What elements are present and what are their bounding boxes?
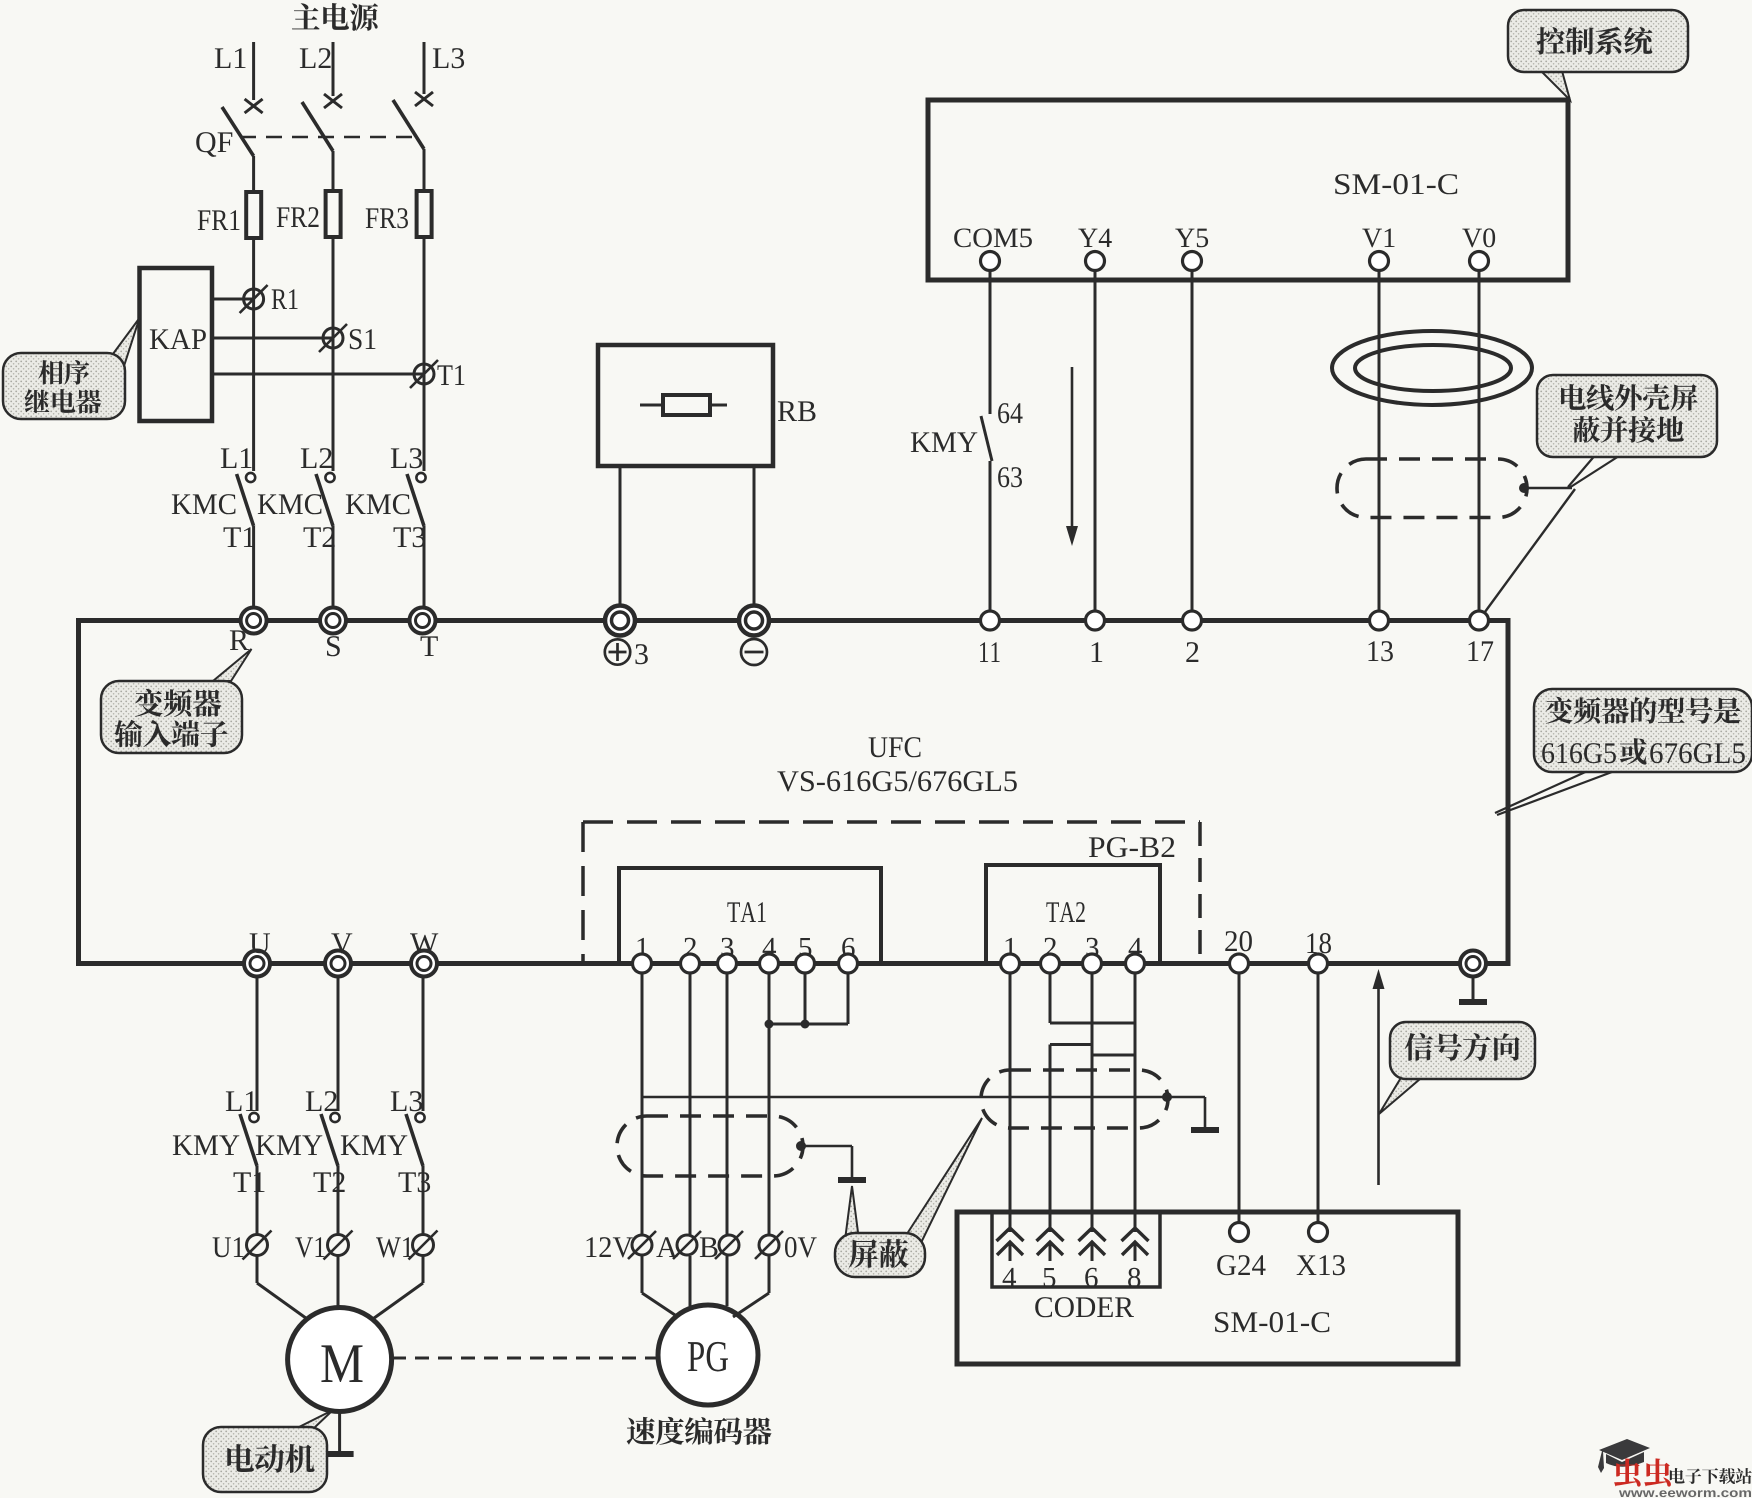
wire dot to callout (1524, 487, 1572, 489)
terminal +3 (605, 606, 635, 636)
wire COM5 to KMY (989, 271, 992, 415)
contactor KMC2 (301, 448, 317, 468)
contactor KMY3 (391, 1091, 407, 1111)
wire A to PG (689, 1256, 692, 1306)
label CODER (1035, 1297, 1052, 1317)
wire jog c (1092, 1054, 1135, 1057)
wire L2 drop (332, 42, 335, 96)
wire 20 to G24 (1238, 973, 1241, 1223)
wire TA1-2 down (689, 973, 692, 1236)
terminal 11 (981, 611, 1000, 630)
node L1 (215, 48, 231, 68)
relay KAP box (140, 268, 213, 421)
wire QF to FR2 (332, 151, 335, 191)
shield oval TA1 dashed (617, 1116, 803, 1176)
long shield wire (643, 1096, 1167, 1099)
wire Y4 to terminal 1 (1094, 271, 1097, 612)
label PG-B2 (1089, 837, 1104, 857)
resistor unit RB box (598, 345, 773, 466)
watermark 电子下载站 (1670, 1468, 1685, 1484)
wire Y5 to terminal 2 (1191, 271, 1194, 612)
wire jog a (1050, 1022, 1135, 1025)
coder arrow pin 4 (997, 1228, 1024, 1241)
wire W1 to motor (422, 1256, 425, 1283)
wire V down (337, 977, 340, 1112)
terminal 1 (1086, 611, 1105, 630)
terminal V1 (1362, 229, 1382, 248)
wire QF to FR1 (252, 156, 255, 192)
terminal V1 (295, 1237, 313, 1257)
terminal 0V (759, 1235, 779, 1255)
wire 0V to PG (768, 1256, 771, 1293)
breaker QF linkage dashed (240, 136, 414, 139)
watermark url (1619, 1490, 1631, 1497)
pin TA1-1 (638, 938, 648, 957)
terminal Y5 (1175, 229, 1194, 247)
net label 主电源 (main power) (292, 3, 320, 29)
control system SM-01-C box (928, 100, 1568, 280)
wire RB to minus (753, 466, 756, 608)
wire KMC3 to bus (423, 526, 426, 608)
connector TA2 box (986, 865, 1160, 964)
contactor KMY2 (306, 1091, 322, 1111)
thermal relay FR1 (246, 192, 261, 238)
wire KAP to T1 (212, 373, 424, 376)
callout 变频器输入端子 (inverter input terminals) (213, 649, 252, 681)
wire V0 to terminal 17 (1478, 271, 1481, 612)
wire V1 to motor (337, 1256, 340, 1308)
shield oval TA2 dashed (981, 1070, 1168, 1128)
wire KMY3 to U1 terminal (422, 1166, 425, 1236)
pin TA1-6 (842, 938, 854, 957)
thermal relay FR3 (417, 191, 432, 237)
wire V1 to terminal 13 (1378, 271, 1381, 612)
shaft coupling dashed (392, 1357, 657, 1360)
terminal W (411, 951, 437, 977)
wire KMC2 to bus (332, 526, 335, 608)
PG-B2 dashed box (583, 820, 1200, 824)
signal arrow up (1377, 985, 1380, 1185)
wire KMC1 to bus (252, 526, 255, 608)
pin TA2-4 (1129, 938, 1142, 957)
wire shield TA2 to ground (1167, 1096, 1205, 1099)
cable shield oval top right dashed (1337, 459, 1527, 518)
wire FR3 down to KMC3 (423, 237, 426, 471)
shield junction dot (1519, 483, 1529, 493)
pin TA2-3 (1086, 938, 1098, 957)
terminal V (325, 951, 351, 977)
terminal R (241, 608, 267, 634)
wire TA1-6 stub (847, 973, 850, 1024)
node L2 (300, 48, 316, 68)
twisted pair rings (1332, 331, 1532, 405)
wire 18 to X13 (1317, 973, 1320, 1223)
terminal A (656, 1237, 677, 1257)
wire TA2-3 down (1091, 973, 1094, 1232)
callout 变频器的型号是616G5或676GL5 (inverter model) (1495, 769, 1592, 813)
terminal T1 (414, 364, 434, 384)
coder arrow pin 8 (1122, 1228, 1149, 1241)
watermark logo cap (1598, 1439, 1650, 1473)
wire TA1-5 stub (804, 973, 807, 1024)
wire TA2-1 down (1009, 973, 1012, 1232)
shield dot TA2 (1162, 1092, 1172, 1102)
label VS-616G5/676GL5 (777, 771, 798, 791)
relay KAP label (150, 329, 170, 349)
pin TA2-2 (1044, 938, 1056, 957)
wire L1 drop (252, 42, 255, 100)
terminal V0 (1462, 229, 1482, 248)
callout 相序继电器 (phase sequence relay) (110, 318, 140, 366)
junction dot 5 (801, 1020, 810, 1029)
pin TA2-1 (1006, 938, 1016, 957)
callout 控制系统 (control system) (1540, 70, 1570, 100)
wire 12V to PG (641, 1256, 644, 1293)
wire FR2 down to KMC2 (332, 237, 335, 471)
contactor KMY1 (226, 1091, 242, 1111)
wire W down (422, 977, 425, 1112)
wire jog b (1050, 1043, 1092, 1046)
callout 电动机 (motor) (295, 1410, 333, 1429)
contact KMY 64-63 (981, 416, 992, 461)
wire U down (256, 977, 259, 1112)
terminal COM5 (954, 228, 970, 247)
wire TA1-4 down (768, 973, 771, 1236)
wire RB to +3 (619, 466, 622, 608)
terminal 17 (1470, 611, 1489, 630)
terminal R1 (244, 289, 264, 309)
wire B to PG (726, 1256, 729, 1306)
label UFC (869, 737, 888, 757)
wire TA1-3 down (726, 973, 729, 1236)
terminal U (244, 951, 270, 977)
contactor KMC3 (391, 448, 407, 468)
connector CODER box (992, 1212, 1160, 1287)
wire KMY1 to U1 terminal (256, 1166, 259, 1236)
watermark 虫虫 (1614, 1458, 1641, 1486)
terminal minus (739, 606, 769, 636)
contactor KMC1 (221, 448, 237, 468)
wire U1 to motor (256, 1256, 259, 1283)
wire FR1 down to KMC1 (252, 238, 255, 471)
breaker QF contact x marks (245, 99, 263, 113)
terminal T (410, 608, 436, 634)
breaker QF blades (222, 107, 254, 156)
pin TA1-5 (800, 938, 812, 957)
motor M (288, 1308, 392, 1412)
wire KMY to terminal 11 (989, 461, 992, 611)
signal direction arrow down (1071, 367, 1074, 530)
terminal 2 (1183, 611, 1202, 630)
shield dot TA1 (796, 1141, 806, 1151)
pin TA1-4 (763, 938, 776, 957)
label SM-01-C (1335, 174, 1349, 194)
terminal U1 (213, 1237, 231, 1257)
breaker QF label (196, 132, 216, 157)
terminal 18 (1307, 933, 1317, 953)
wire shield TA1 to ground (801, 1145, 852, 1148)
wire QF to FR3 (423, 149, 426, 191)
terminal W1 (376, 1237, 401, 1257)
junction dot 4 (765, 1020, 774, 1029)
terminal Y4 (1078, 229, 1097, 247)
callout 信号方向 (signal direction) (1379, 1076, 1420, 1114)
label RB (778, 401, 797, 421)
pin TA1-2 (684, 938, 696, 957)
wire L3 drop (423, 42, 426, 94)
terminal S (320, 608, 346, 634)
thermal relay FR2 (326, 191, 341, 237)
inverter UFC box VS-616G5/676GL5 (79, 621, 1509, 964)
terminal 12V (587, 1237, 597, 1257)
pin TA1-3 (721, 938, 733, 957)
terminal B (700, 1237, 718, 1257)
wire KAP to S1 (212, 337, 333, 340)
wire TA2-4 down (1134, 973, 1137, 1232)
coder arrow pin 6 (1079, 1228, 1106, 1241)
wire KMY2 to U1 terminal (337, 1166, 340, 1236)
terminal X13 (1309, 1223, 1328, 1242)
node L3 (433, 48, 449, 68)
motor ground (338, 1412, 341, 1455)
wire 4-5-6 tie (769, 1023, 848, 1026)
terminal 13 (1370, 611, 1389, 630)
wire TA2-2 upper (1049, 973, 1052, 1023)
encoder PG (658, 1305, 758, 1405)
wire TA2-2 lower (1049, 1045, 1052, 1233)
callout 屏蔽 (shield) (845, 1186, 859, 1240)
wire TA1-1 down (641, 973, 644, 1236)
label 速度编码器 (speed encoder) (627, 1417, 655, 1445)
wire shield to terminal 17 (1482, 489, 1575, 616)
wire KAP to R1 (212, 298, 254, 301)
resistor symbol (663, 395, 710, 415)
connector TA1 box (619, 868, 881, 964)
label SM-01-C bottom (1215, 1312, 1228, 1332)
callout 电线外壳屏蔽并接地 (cable shield grounded) (1568, 453, 1597, 487)
terminal G24 (1230, 1223, 1249, 1242)
control box SM-01-C bottom (957, 1212, 1458, 1364)
coder arrow pin 5 (1037, 1228, 1064, 1241)
terminal S1 (323, 328, 343, 348)
terminal 20 (1225, 931, 1237, 951)
ground terminal at inverter right (1460, 951, 1486, 977)
